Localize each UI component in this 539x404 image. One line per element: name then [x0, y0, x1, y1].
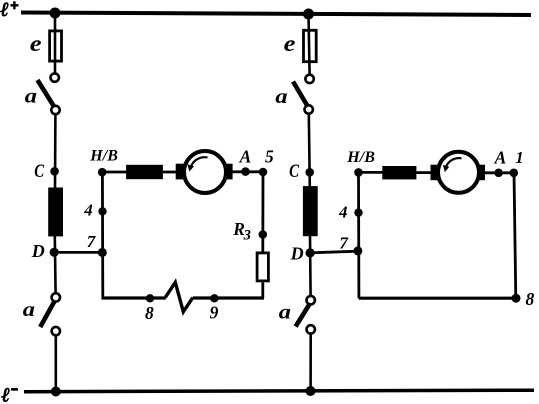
svg-text:C: C	[34, 160, 44, 181]
switch a4 bottom contact	[307, 325, 315, 333]
motor M1 rotation arrow	[191, 157, 208, 166]
node 9	[210, 294, 218, 302]
switch a3 blade	[293, 82, 308, 107]
wire winding to motor M2	[416, 171, 431, 174]
svg-text:3: 3	[243, 228, 251, 244]
node L- junction right	[306, 386, 316, 396]
node 5	[259, 168, 268, 177]
fuse e2	[304, 30, 317, 61]
motor M1 right brush	[225, 164, 233, 180]
wire a2 to L- rail	[54, 335, 57, 391]
motor M2 armature	[438, 152, 479, 193]
svg-text:e: e	[284, 32, 296, 57]
node A left	[241, 167, 250, 176]
svg-text:7: 7	[339, 234, 349, 253]
wire bottom loop right segment	[193, 296, 264, 299]
node above R3	[259, 230, 268, 239]
svg-text:D: D	[290, 244, 304, 264]
svg-text:5: 5	[265, 147, 274, 167]
motor M2 rotation arrow	[446, 158, 462, 167]
switch a1 top contact	[51, 73, 59, 81]
motor M2 left brush	[431, 165, 439, 181]
wire D2 to node 7 right	[310, 251, 359, 253]
switch a3 bottom contact	[305, 105, 313, 113]
switch a4 blade	[296, 305, 310, 327]
switch a2 bottom contact	[52, 327, 60, 335]
label L+	[0, 0, 18, 21]
wire winding to motor M1	[163, 171, 177, 174]
node A right	[494, 169, 503, 178]
wire resistor to D2 to switch	[309, 236, 312, 297]
resistor R3	[257, 253, 268, 281]
break symbol between 8 and 9	[165, 282, 193, 312]
svg-text:a: a	[23, 298, 35, 320]
field winding right (filled bar)	[382, 166, 416, 179]
switch a2 top contact	[52, 293, 60, 301]
resistor C-D left (filled bar)	[48, 188, 63, 237]
switch a3 top contact	[305, 75, 313, 83]
motor M2 right brush	[477, 165, 485, 181]
wire node 5 down to R3	[261, 172, 264, 252]
wire R3 to bottom loop	[261, 282, 264, 298]
node L+ junction left	[50, 8, 61, 19]
svg-text:4: 4	[338, 203, 348, 222]
svg-text:A: A	[494, 147, 507, 167]
node 8 left	[146, 294, 154, 302]
svg-text:7: 7	[87, 232, 97, 251]
node 4 right	[354, 208, 362, 216]
wire resistor to D1 to switch	[53, 236, 56, 294]
field winding left (filled bar)	[126, 165, 163, 179]
svg-text:8: 8	[145, 303, 154, 323]
node H/B left	[98, 168, 107, 177]
node 8 right	[512, 294, 521, 303]
svg-text:a: a	[279, 300, 291, 322]
label R3	[232, 219, 251, 244]
switch a2 blade	[40, 302, 54, 327]
node C2	[305, 168, 314, 177]
node 7 left	[98, 248, 107, 257]
svg-text:C: C	[289, 160, 299, 181]
wire H/B to field winding right	[359, 171, 384, 174]
wire a3 to C2 to resistor	[309, 114, 310, 187]
node L+ junction right	[303, 9, 314, 20]
node 4 left	[98, 207, 106, 215]
motor M1 armature	[184, 151, 226, 193]
wire rail to fuse e2	[309, 14, 310, 75]
wire left loop vertical H/B to bottom	[101, 172, 104, 298]
node C1	[50, 167, 59, 176]
node 1	[510, 169, 519, 178]
wire a1 to C1 to resistor	[54, 114, 57, 188]
svg-text:e: e	[30, 32, 42, 57]
resistor C-D right (filled bar)	[303, 186, 318, 236]
node H/B right	[354, 168, 363, 177]
svg-text:a: a	[275, 85, 287, 107]
label L-	[2, 385, 18, 404]
svg-text:a: a	[25, 84, 37, 106]
svg-text:8: 8	[526, 289, 535, 309]
wire node 1 down to node 8 right	[514, 173, 516, 298]
switch a1 bottom contact	[51, 106, 59, 114]
switch a4 top contact	[307, 296, 315, 304]
wire D1 to node 7 left	[54, 251, 103, 254]
wire L+ top rail	[21, 13, 531, 16]
motor M1 left brush	[176, 164, 184, 180]
svg-text:4: 4	[83, 201, 93, 220]
switch a1 blade	[38, 80, 55, 107]
wire bottom loop right circuit	[359, 297, 516, 300]
svg-text:1: 1	[515, 148, 524, 167]
svg-text:ℓ: ℓ	[2, 385, 11, 404]
svg-text:9: 9	[210, 303, 219, 323]
wire bottom loop left segment	[102, 296, 166, 299]
node 7 right	[353, 246, 362, 255]
wire motor M1 to node 5	[232, 170, 263, 173]
svg-text:H/B: H/B	[89, 147, 118, 164]
fuse e1	[50, 31, 62, 61]
wire a4 to L- rail	[309, 334, 312, 392]
wire L- bottom rail	[24, 390, 534, 392]
svg-text:H/B: H/B	[346, 149, 375, 166]
svg-text:ℓ: ℓ	[0, 0, 9, 21]
wire right loop vertical H/B to bottom	[357, 172, 360, 298]
node D2	[306, 248, 315, 257]
wire motor M2 to node 1	[485, 171, 515, 174]
svg-text:A: A	[239, 146, 252, 166]
wire rail to fuse e1	[54, 13, 57, 74]
node D1	[50, 248, 59, 257]
node L- junction left	[51, 387, 61, 397]
wire H/B to field winding left	[102, 171, 127, 174]
svg-text:D: D	[31, 241, 45, 261]
